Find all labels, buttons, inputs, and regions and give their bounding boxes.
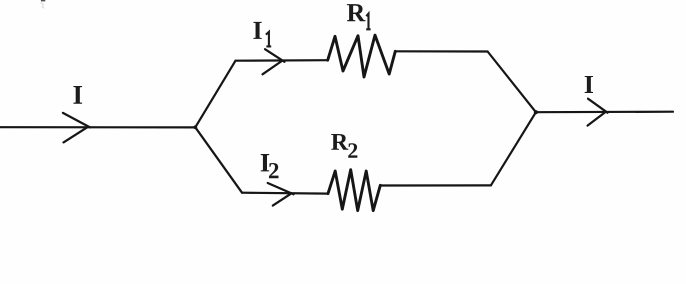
- wire diagonal up to right junction: [491, 112, 536, 185]
- label I2 subscript 2: [269, 163, 279, 178]
- artifact top edge: [41, 0, 45, 1]
- arrow current I2: [268, 183, 294, 206]
- label I1 letter I: [253, 22, 261, 39]
- wire output right: [536, 111, 673, 114]
- wire top branch right: [395, 50, 487, 52]
- resistor R2: [328, 170, 380, 211]
- label R1 letter R: [347, 4, 366, 21]
- label I1 subscript 1: [266, 32, 271, 47]
- node left junction: [193, 125, 197, 129]
- wire bottom branch right: [380, 184, 491, 186]
- wire top branch left: [236, 59, 328, 62]
- arrow current I1: [263, 49, 285, 74]
- resistor R1: [328, 35, 396, 77]
- wire input left: [0, 126, 195, 128]
- label R2 subscript 2: [348, 143, 357, 158]
- wire diagonal down from left junction: [195, 127, 242, 192]
- wire diagonal down to right junction: [488, 52, 536, 113]
- label I input: [73, 86, 82, 104]
- wire diagonal up from left junction: [195, 61, 235, 128]
- label I output: [585, 76, 593, 93]
- label R2 letter R: [331, 134, 348, 150]
- node right junction: [534, 110, 538, 114]
- arrow current I output: [588, 99, 608, 126]
- arrow current I input: [63, 113, 90, 142]
- wire bottom branch left: [242, 192, 328, 195]
- label I2 letter I: [261, 154, 270, 171]
- label R1 subscript 1: [366, 14, 370, 30]
